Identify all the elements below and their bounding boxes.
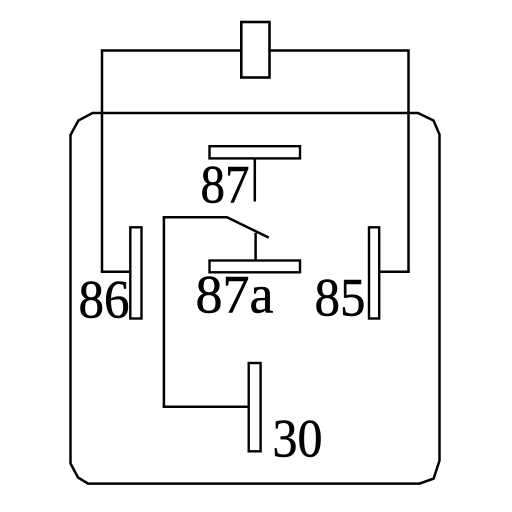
wire: left vertical down — [101, 49, 104, 272]
wire: coil left to pin 86 (top horizontal) — [102, 49, 241, 52]
terminal 86 blade — [130, 227, 141, 318]
terminal 30 blade — [249, 363, 261, 451]
contact 87a bar — [210, 261, 301, 273]
contact 87 bar — [210, 146, 301, 158]
wire: horizontal to terminal 30 — [163, 406, 249, 409]
terminal 85 blade — [369, 227, 379, 318]
wire: stub to terminal 85 — [379, 271, 410, 274]
svg-text:87: 87 — [201, 155, 250, 215]
wire: stub to terminal 86 — [101, 271, 131, 274]
contact 87a stem — [254, 233, 257, 261]
wire: coil right to pin 85 (top horizontal) — [270, 49, 409, 52]
wire: right vertical down — [407, 49, 410, 272]
svg-text:85: 85 — [315, 267, 366, 327]
svg-text:86: 86 — [79, 269, 130, 329]
relay body outline — [71, 113, 440, 484]
svg-text:87a: 87a — [196, 264, 274, 324]
wire: common vertical down from switch arm — [163, 217, 166, 406]
switch arm (common from 30) — [164, 217, 269, 237]
svg-text:30: 30 — [273, 408, 323, 468]
coil K1 (top rectangle) — [241, 22, 269, 78]
contact 87 stem — [254, 158, 257, 201]
